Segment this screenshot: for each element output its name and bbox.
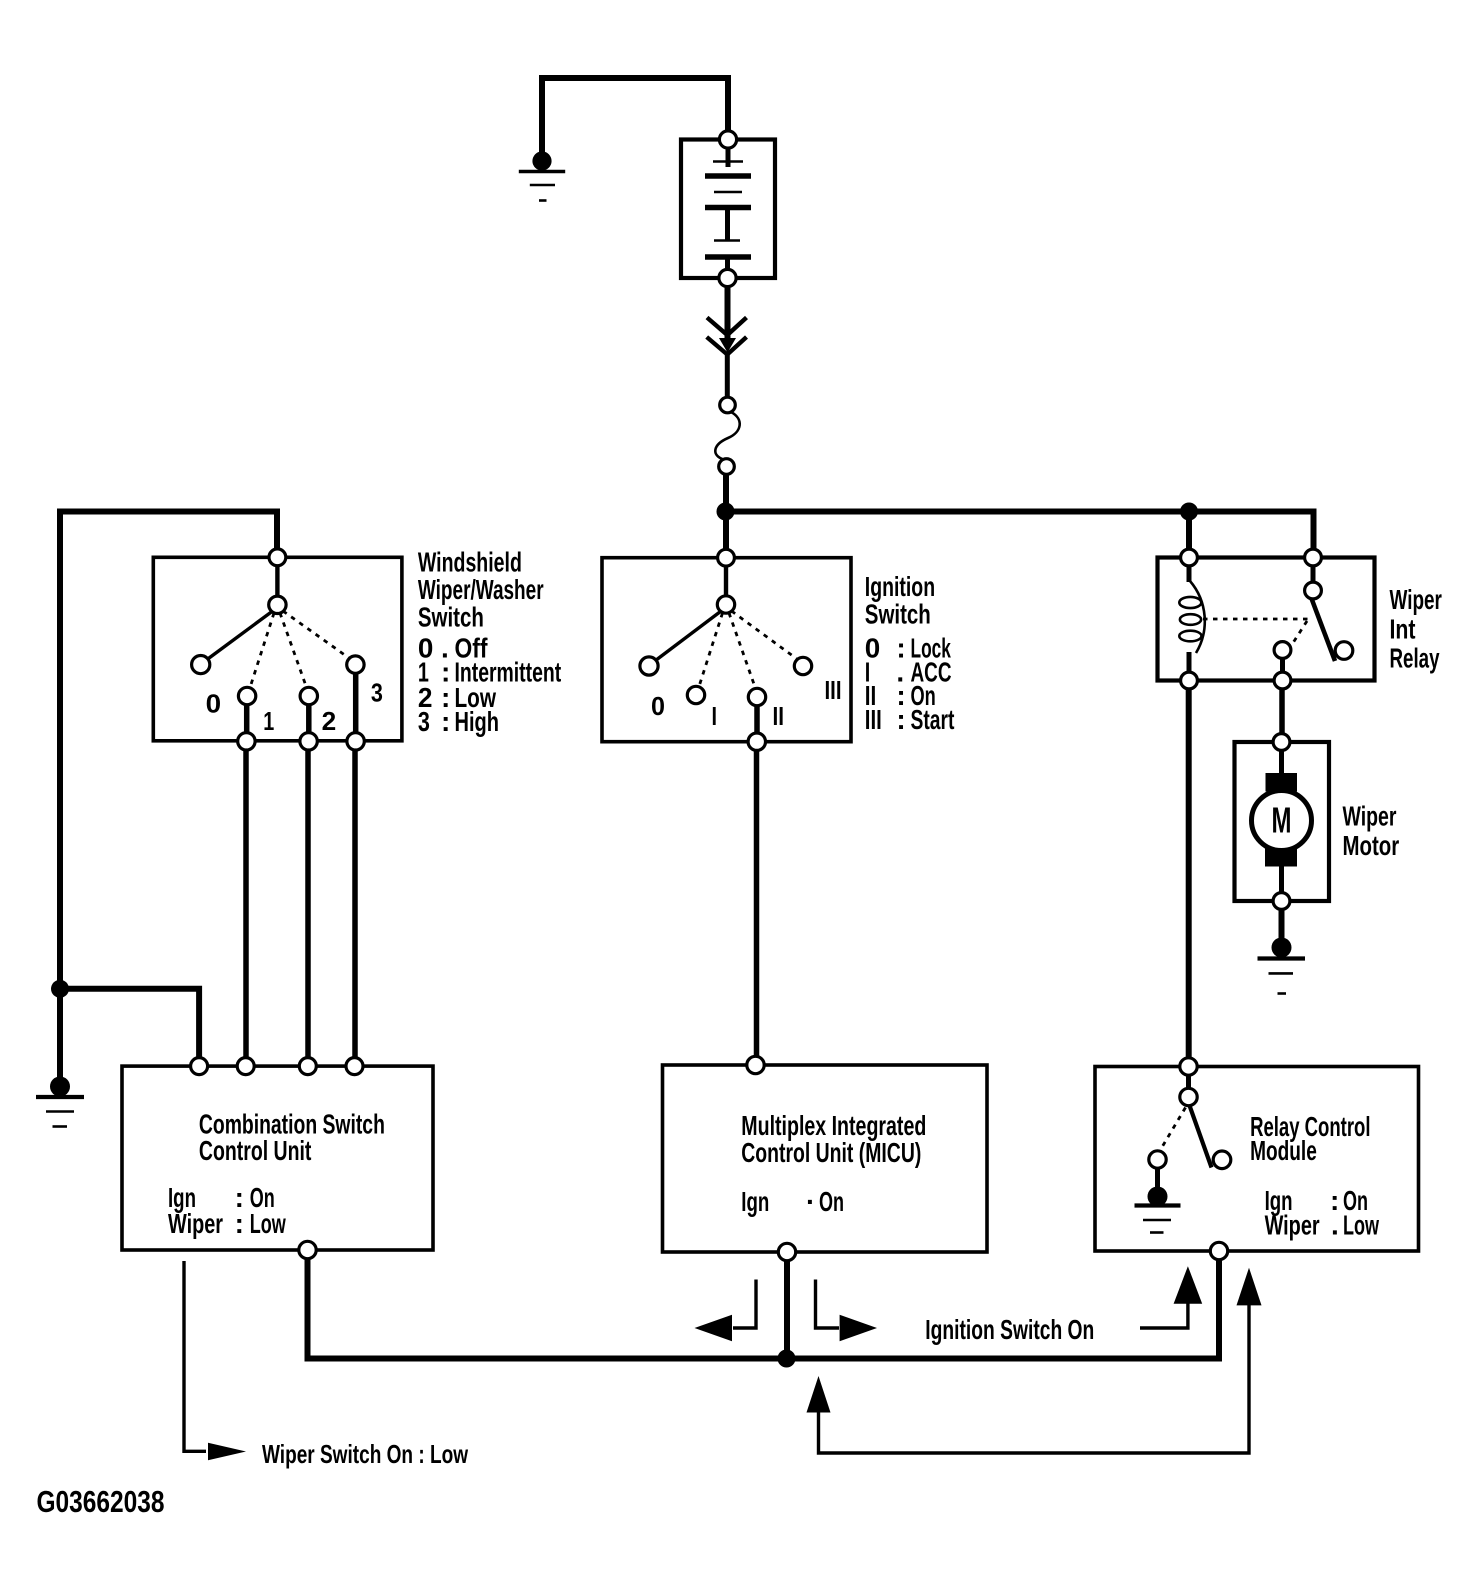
RCM caption <box>1250 1111 1379 1241</box>
battery <box>681 140 775 279</box>
bus bottom right <box>787 1259 1220 1359</box>
wiper motor box <box>1235 742 1330 901</box>
combination caption <box>168 1109 385 1240</box>
wire connector to bus <box>723 474 729 516</box>
svg-text:Switch: Switch <box>418 602 484 633</box>
wiper contact 2 stub <box>306 704 312 734</box>
svg-text:On: On <box>819 1186 844 1217</box>
RCM dashed actuator <box>1160 1108 1186 1151</box>
svg-text:·: · <box>806 1186 815 1217</box>
wires wiper switch to combination unit <box>243 750 249 1060</box>
svg-text::: : <box>896 704 905 735</box>
motor terminal top <box>1273 734 1290 751</box>
svg-text:Wiper: Wiper <box>168 1208 223 1239</box>
battery terminal bottom <box>719 269 736 286</box>
wire ground drop G1 <box>539 78 545 152</box>
relay dashed link <box>1203 618 1309 621</box>
relay control module box <box>1095 1067 1419 1252</box>
motor stub bottom <box>1279 867 1284 894</box>
RCM top terminal <box>1180 1058 1197 1075</box>
svg-text:G03662038: G03662038 <box>37 1484 165 1519</box>
motor circle <box>1252 791 1312 851</box>
wiper terminal 2 <box>300 733 317 750</box>
motor terminal bottom <box>1273 893 1290 910</box>
arrow out right <box>816 1280 840 1329</box>
ignition pivot <box>717 596 734 613</box>
wire MICU to bus <box>784 1261 790 1359</box>
MICU top terminal <box>747 1056 764 1073</box>
arrow out left <box>733 1280 756 1329</box>
arrow head feedback up <box>807 1376 831 1413</box>
MICU box <box>663 1065 988 1252</box>
svg-text:High: High <box>455 706 500 737</box>
connector circle upper <box>720 397 736 413</box>
ignition contact II <box>748 688 765 705</box>
RCM switch blade <box>1190 1106 1212 1168</box>
svg-text:Motor: Motor <box>1343 830 1400 861</box>
combination bottom terminal <box>299 1241 316 1258</box>
wiper switch blade to 0 <box>205 612 272 662</box>
arrow head into RCM left <box>1174 1266 1203 1304</box>
RCM ground contact <box>1149 1151 1166 1168</box>
wire feed to combination unit <box>60 989 199 1060</box>
svg-text:Wiper: Wiper <box>1390 584 1442 615</box>
svg-text:1: 1 <box>263 706 274 736</box>
svg-text:Start: Start <box>911 704 955 735</box>
connector circle lower <box>719 459 735 475</box>
svg-text:II: II <box>773 701 785 731</box>
svg-text:0: 0 <box>206 689 222 719</box>
dashed throw to III <box>732 611 798 659</box>
wiper switch pivot stub <box>275 565 279 597</box>
wiper contact 0 <box>192 656 210 674</box>
node left feed <box>51 980 69 998</box>
wire relay to relay control module <box>1186 689 1192 1060</box>
svg-text:M: M <box>1272 799 1292 840</box>
svg-text:Control Unit (MICU): Control Unit (MICU) <box>741 1137 921 1168</box>
MICU caption <box>741 1110 926 1217</box>
svg-text:III: III <box>825 675 842 705</box>
relay switch blade <box>1312 599 1336 662</box>
relay coil loop 1 <box>1179 597 1201 608</box>
wiper terminal 3 <box>347 733 364 750</box>
relay NC stub <box>1280 658 1285 673</box>
relay terminal top-left <box>1181 549 1198 566</box>
wire left drop <box>57 509 63 989</box>
RCM switch common <box>1180 1088 1197 1105</box>
relay coil loop 2 <box>1180 614 1201 625</box>
combination terminal 4 <box>346 1058 363 1075</box>
motor stub top <box>1279 750 1284 775</box>
wiper contact 1 <box>238 687 255 704</box>
relay coil wire bottom <box>1187 652 1192 673</box>
ground G4 <box>1135 1187 1181 1233</box>
wiper motor caption <box>1343 801 1400 862</box>
wire battery top feed <box>542 78 728 140</box>
ignition top terminal <box>718 549 735 566</box>
arrow head out right <box>840 1315 877 1342</box>
wire bus to relay coil <box>1186 512 1192 551</box>
wiper int relay caption <box>1390 584 1442 674</box>
arrow into RCM left <box>1140 1300 1188 1328</box>
relay coil wire top <box>1187 565 1192 582</box>
battery terminal top <box>719 131 736 148</box>
svg-text::: : <box>441 706 450 737</box>
ignition contact I <box>687 686 704 703</box>
svg-text:Low: Low <box>1343 1210 1379 1241</box>
svg-text:Module: Module <box>1250 1135 1317 1166</box>
fusible link squiggle <box>715 412 739 460</box>
relay switch common <box>1305 582 1322 599</box>
wire ignition II to MICU <box>754 750 760 1057</box>
svg-text:Windshield: Windshield <box>418 547 522 578</box>
dashed throw to 1 <box>251 613 275 686</box>
relay terminal bottom-mid <box>1274 672 1291 689</box>
svg-text:Switch: Switch <box>865 599 931 630</box>
ground G3 <box>1258 938 1306 994</box>
ignition terminal II <box>748 733 765 750</box>
arrow head into RCM right <box>1237 1268 1262 1306</box>
relay switch open contact <box>1335 642 1353 660</box>
arrow wiper switch on <box>208 1443 246 1461</box>
motor brush top <box>1266 773 1298 792</box>
combination terminal 1 <box>191 1058 208 1075</box>
fuse chevron 1 <box>707 318 747 336</box>
svg-text:Ignition Switch On: Ignition Switch On <box>925 1314 1094 1345</box>
wire left feed top <box>58 512 278 551</box>
svg-text:Relay: Relay <box>1390 643 1440 674</box>
wire left to ground <box>57 989 63 1078</box>
wiper switch pivot <box>269 596 286 613</box>
wire fuse to connector <box>725 354 730 397</box>
RCM bottom terminal <box>1210 1242 1227 1259</box>
svg-text:III: III <box>865 704 882 735</box>
ground G2 <box>36 1077 84 1127</box>
svg-text:Int: Int <box>1390 614 1416 645</box>
wiper int relay box <box>1158 558 1375 681</box>
MICU bottom terminal <box>778 1243 795 1260</box>
svg-text:Wiper/Washer: Wiper/Washer <box>418 574 544 605</box>
svg-text:I: I <box>712 701 718 731</box>
wire motor to ground <box>1279 910 1285 941</box>
combination switch control unit box <box>122 1066 433 1250</box>
relay NC contact <box>1274 642 1291 659</box>
ignition contact III <box>794 657 811 674</box>
wiper contact 2 <box>300 687 317 704</box>
node bus-fuse <box>717 503 735 521</box>
svg-text::: : <box>235 1208 244 1239</box>
ignition pivot stub <box>724 565 728 597</box>
svg-text:Wiper: Wiper <box>1343 801 1397 832</box>
wiper switch caption <box>418 547 561 738</box>
svg-text:0: 0 <box>651 691 665 721</box>
wiper contact 3 <box>347 656 364 673</box>
windshield wiper/washer switch box <box>153 557 402 741</box>
wire 2 <box>305 750 311 1060</box>
combination terminal 2 <box>237 1058 254 1075</box>
dashed throw to I <box>700 613 723 685</box>
wire relay to wiper motor <box>1279 689 1285 735</box>
svg-text:Control Unit: Control Unit <box>199 1135 312 1166</box>
svg-text:Wiper: Wiper <box>1265 1210 1320 1241</box>
RCM open contact <box>1213 1151 1231 1169</box>
svg-text:3: 3 <box>418 706 430 737</box>
dashed throw to 3 <box>283 611 349 658</box>
feedback loop <box>819 1303 1250 1453</box>
main power bus <box>726 512 1314 558</box>
wire battery to fuse <box>725 287 731 342</box>
fuse arrow head <box>719 338 736 353</box>
wiper contact 1 stub <box>244 704 250 734</box>
relay terminal bottom-left <box>1181 672 1198 689</box>
svg-text:Wiper Switch On : Low: Wiper Switch On : Low <box>262 1439 469 1469</box>
ignition contact II stub <box>754 706 760 735</box>
wiper switch on tap <box>184 1261 206 1451</box>
arrow head out left <box>695 1315 733 1342</box>
relay dashed actuator <box>1291 621 1307 646</box>
wiper switch top terminal <box>269 549 286 566</box>
svg-text:2: 2 <box>322 706 337 736</box>
svg-text:Ignition: Ignition <box>865 571 935 602</box>
fuse chevron 2 <box>707 337 747 355</box>
ignition blade to 0 <box>654 612 721 663</box>
wire 3 <box>352 750 358 1060</box>
svg-text:Low: Low <box>250 1208 286 1239</box>
dashed throw to 2 <box>280 613 306 686</box>
relay switch stub <box>1311 565 1316 583</box>
RCM switch stub <box>1186 1074 1191 1090</box>
dashed throw to II <box>729 613 755 687</box>
relay terminal top-right <box>1305 549 1322 566</box>
wiper contact 3 stub <box>353 673 359 734</box>
wire bus to ignition switch <box>723 512 729 551</box>
relay coil loop 3 <box>1179 631 1201 642</box>
ground G1 <box>519 151 565 200</box>
combination terminal 3 <box>299 1058 316 1075</box>
node bus-relay <box>1180 503 1198 521</box>
wiper terminal 1 <box>238 733 255 750</box>
ignition switch caption <box>865 571 955 735</box>
relay coil arc <box>1190 581 1205 653</box>
motor brush bottom <box>1265 848 1297 867</box>
node bus MICU <box>778 1350 796 1368</box>
ignition switch box <box>602 558 851 742</box>
svg-text:.: . <box>1331 1210 1339 1241</box>
wire combination to bus <box>308 1259 787 1359</box>
ignition contact 0 <box>640 657 658 675</box>
svg-text:3: 3 <box>371 678 383 708</box>
svg-text:Ign: Ign <box>741 1186 769 1217</box>
RCM ground stub <box>1155 1168 1160 1189</box>
